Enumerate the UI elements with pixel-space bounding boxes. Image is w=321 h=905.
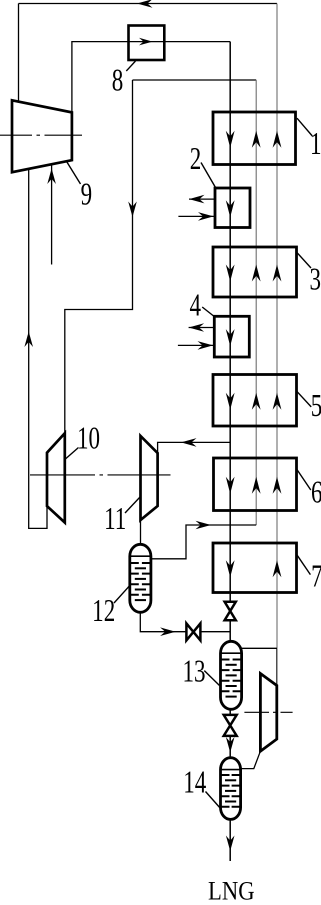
svg-text:4: 4	[189, 288, 201, 324]
svg-text:3: 3	[310, 262, 321, 298]
svg-text:10: 10	[77, 421, 100, 457]
svg-text:LNG: LNG	[208, 877, 255, 905]
svg-text:9: 9	[81, 177, 93, 213]
svg-text:11: 11	[104, 501, 126, 537]
svg-text:8: 8	[112, 63, 124, 99]
svg-text:6: 6	[311, 475, 321, 511]
svg-text:14: 14	[183, 765, 206, 801]
svg-text:2: 2	[190, 141, 202, 177]
svg-text:13: 13	[182, 654, 205, 690]
svg-text:5: 5	[311, 389, 321, 425]
svg-text:12: 12	[92, 593, 115, 629]
svg-text:1: 1	[310, 126, 321, 162]
svg-text:7: 7	[311, 559, 321, 595]
